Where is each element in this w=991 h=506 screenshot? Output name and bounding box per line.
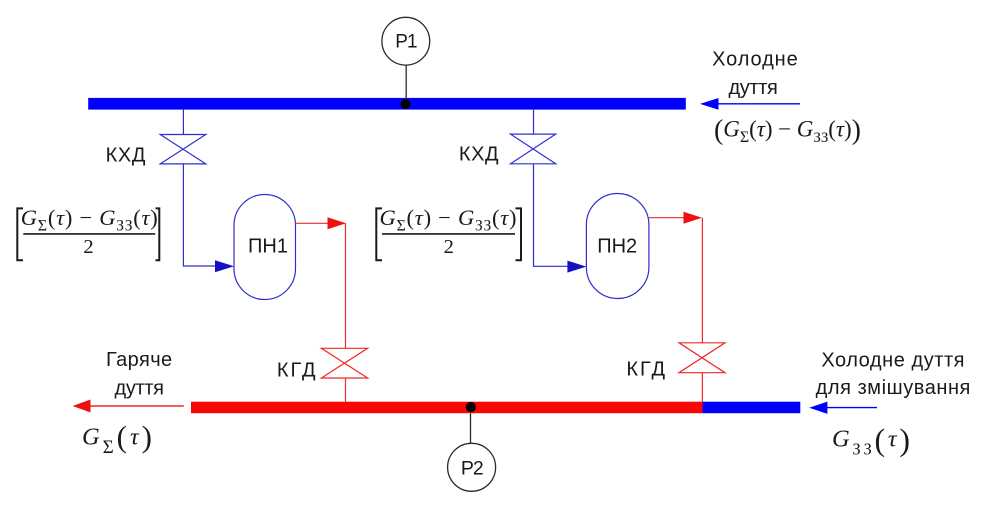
- svg-text:дуття: дуття: [115, 378, 164, 400]
- svg-text:P1: P1: [395, 32, 417, 53]
- svg-text:Гаряче: Гаряче: [106, 349, 173, 371]
- svg-text:ПН2: ПН2: [597, 236, 637, 258]
- svg-text:P2: P2: [461, 457, 483, 479]
- svg-text:GΣ(τ) − GЗЗ(τ): GΣ(τ) − GЗЗ(τ): [380, 205, 517, 235]
- svg-text:дуття: дуття: [728, 77, 777, 99]
- svg-text:ПН1: ПН1: [248, 236, 288, 258]
- svg-text:КГД: КГД: [277, 359, 318, 381]
- svg-text:КХД: КХД: [459, 143, 499, 165]
- svg-text:GЗЗ(τ): GЗЗ(τ): [832, 421, 910, 458]
- svg-text:GΣ(τ): GΣ(τ): [82, 419, 152, 458]
- svg-text:Холодне дуття: Холодне дуття: [821, 350, 965, 372]
- svg-text:КХД: КХД: [106, 144, 146, 166]
- svg-text:(GΣ(τ) − GЗЗ(τ)): (GΣ(τ) − GЗЗ(τ)): [714, 115, 861, 146]
- svg-text:Холодне: Холодне: [712, 49, 799, 71]
- svg-text:GΣ(τ) − GЗЗ(τ): GΣ(τ) − GЗЗ(τ): [21, 205, 158, 235]
- svg-text:2: 2: [83, 236, 93, 258]
- svg-text:КГД: КГД: [626, 359, 667, 381]
- svg-text:2: 2: [444, 236, 454, 258]
- svg-text:для змішування: для змішування: [816, 377, 971, 399]
